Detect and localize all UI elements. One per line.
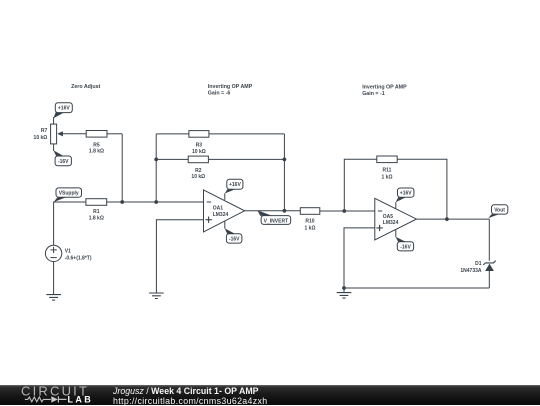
node junction R11 on OA5 output — [445, 217, 449, 221]
svg-text:LAB: LAB — [68, 395, 94, 405]
svg-text:1.8 kΩ: 1.8 kΩ — [89, 148, 104, 154]
resistor R3 — [189, 131, 209, 138]
op-amp OA5 — [375, 198, 417, 240]
label D1 value — [460, 261, 482, 274]
footer bar — [0, 385, 540, 405]
svg-text:D1: D1 — [475, 261, 482, 267]
resistor R2 — [188, 156, 208, 163]
label R10 value — [305, 219, 316, 232]
label V1 value — [65, 249, 92, 262]
svg-text:-0.6+(1.8*T): -0.6+(1.8*T) — [65, 256, 92, 262]
node junction R2 left on vertical — [154, 158, 158, 162]
label R2 value — [191, 168, 205, 180]
flag +16V at OA5 — [396, 188, 414, 202]
svg-text:10 kΩ: 10 kΩ — [192, 149, 206, 155]
svg-text:1.8 kΩ: 1.8 kΩ — [89, 215, 104, 221]
resistor R10 — [300, 208, 320, 215]
wire Vout corner down to D1 — [488, 219, 490, 261]
wire pot bottom to -16V flag — [53, 144, 55, 151]
wire R10 right to node — [320, 210, 345, 212]
wire OA5 -V power pin — [395, 229, 397, 237]
node junction R5 feedback on main wire — [120, 200, 124, 204]
wire node to OA5 inverting input — [344, 210, 375, 212]
flag +16V at R7 top — [53, 103, 72, 119]
svg-text:Inverting OP AMP: Inverting OP AMP — [362, 85, 407, 91]
label OA5 LM324 — [383, 214, 399, 226]
svg-text:V_INVERT: V_INVERT — [264, 218, 288, 224]
svg-text:R11: R11 — [383, 168, 392, 174]
resistor R5 — [86, 131, 107, 138]
node junction feedback on OA1 output — [283, 209, 287, 213]
resistor R11 — [377, 156, 397, 163]
wire R2 right — [208, 158, 284, 160]
wire OA1 output to R10 — [245, 210, 301, 212]
wire R11 right branch down to OA5 output — [397, 159, 447, 219]
wire OA1 +V power pin — [224, 193, 226, 200]
wire OA5 output to Vout corner — [417, 218, 490, 220]
svg-text:Gain = -1: Gain = -1 — [362, 91, 385, 97]
svg-text:R10: R10 — [305, 219, 314, 225]
voltage source V1 — [45, 245, 61, 261]
label Inverting OP AMP Gain -1 — [362, 85, 407, 98]
svg-text:Vout: Vout — [494, 208, 505, 214]
svg-text:10 kΩ: 10 kΩ — [34, 135, 48, 141]
flag -16V at R7 bottom — [53, 150, 71, 166]
svg-text:R3: R3 — [196, 143, 203, 149]
wire R1 right to OA1 inverting input — [107, 201, 204, 203]
diode D1 zener — [483, 261, 495, 271]
svg-text:-16V: -16V — [400, 245, 411, 251]
wire R2 left — [156, 158, 188, 160]
op-amp OA1 — [204, 190, 245, 232]
svg-text:-16V: -16V — [58, 159, 69, 165]
node junction R2 right on feedback vertical — [283, 158, 287, 162]
wire bottom rail — [344, 287, 489, 289]
svg-text:+16V: +16V — [400, 191, 412, 197]
wire OA5 noninverting input down to ground rail — [344, 228, 375, 288]
wire VSupply corner to V1 and R1 — [54, 202, 86, 245]
svg-text:+16V: +16V — [58, 106, 70, 112]
wire R3 left — [156, 133, 189, 135]
node junction R2/R3 branch on main wire — [154, 200, 158, 204]
node junction bottom rail ground — [342, 286, 346, 290]
svg-text:10 kΩ: 10 kΩ — [191, 174, 205, 180]
node junction R10/R11/OA5 input — [342, 209, 346, 213]
label Inverting OP AMP Gain -6 — [208, 84, 253, 97]
svg-text:1 kΩ: 1 kΩ — [382, 174, 393, 180]
label R5 value — [89, 142, 104, 154]
footer title and url — [113, 387, 268, 406]
wire V1 to ground — [53, 262, 55, 295]
wire D1 anode down — [488, 271, 490, 288]
flag Vout — [488, 205, 508, 218]
wire R11 left branch — [344, 159, 377, 211]
svg-text:R7: R7 — [41, 128, 48, 134]
ground at bottom rail — [337, 293, 352, 299]
svg-text:LM324: LM324 — [213, 212, 229, 218]
ground at V1 — [46, 295, 61, 301]
flag +16V at OA1 — [225, 179, 243, 193]
wire R5 right to feedback vertical — [107, 133, 122, 135]
label OA1 LM324 — [213, 206, 229, 218]
ground at OA1 noninverting input — [149, 293, 164, 299]
svg-text:1 kΩ: 1 kΩ — [305, 225, 316, 231]
wire R7 wiper to R5 — [62, 133, 86, 135]
svg-text:V1: V1 — [65, 249, 71, 255]
wire pot top to +16V flag — [53, 117, 55, 124]
svg-text:+16V: +16V — [229, 182, 241, 188]
resistor R1 — [86, 199, 107, 206]
svg-text:R1: R1 — [93, 209, 100, 215]
svg-text:-16V: -16V — [229, 237, 240, 243]
flag V_INVERT — [257, 210, 290, 224]
wire feedback right vertical to OA1 output — [283, 134, 285, 211]
svg-text:OA1: OA1 — [213, 206, 224, 212]
svg-text:Gain = -6: Gain = -6 — [208, 91, 231, 97]
wire vertical R3/R2 left ends to main node — [155, 134, 157, 202]
wire feedback vertical from R5 down to main node — [121, 134, 123, 202]
wire OA1 noninverting input to ground — [156, 220, 203, 293]
flag -16V at OA1 — [225, 228, 242, 243]
resistor R7 potentiometer body — [51, 124, 63, 144]
label R7 value — [34, 128, 48, 141]
wire R3 right — [209, 133, 285, 135]
wire OA1 -V power pin — [224, 221, 226, 228]
svg-text:Zero Adjust: Zero Adjust — [71, 84, 100, 90]
CircuitLab logo — [0, 385, 100, 405]
label R1 value — [89, 209, 104, 221]
flag VSupply — [54, 188, 82, 202]
svg-text:Inverting OP AMP: Inverting OP AMP — [208, 84, 253, 90]
flag -16V at OA5 — [396, 237, 414, 251]
svg-text:1N4733A: 1N4733A — [460, 268, 482, 274]
wire OA5 +V power pin — [395, 202, 397, 209]
svg-text:LM324: LM324 — [383, 220, 399, 226]
svg-text:R2: R2 — [195, 168, 202, 174]
wire ground stub bottom rail — [343, 288, 345, 293]
svg-text:VSupply: VSupply — [59, 191, 79, 197]
label R3 value — [192, 143, 206, 156]
label R11 value — [382, 168, 393, 181]
